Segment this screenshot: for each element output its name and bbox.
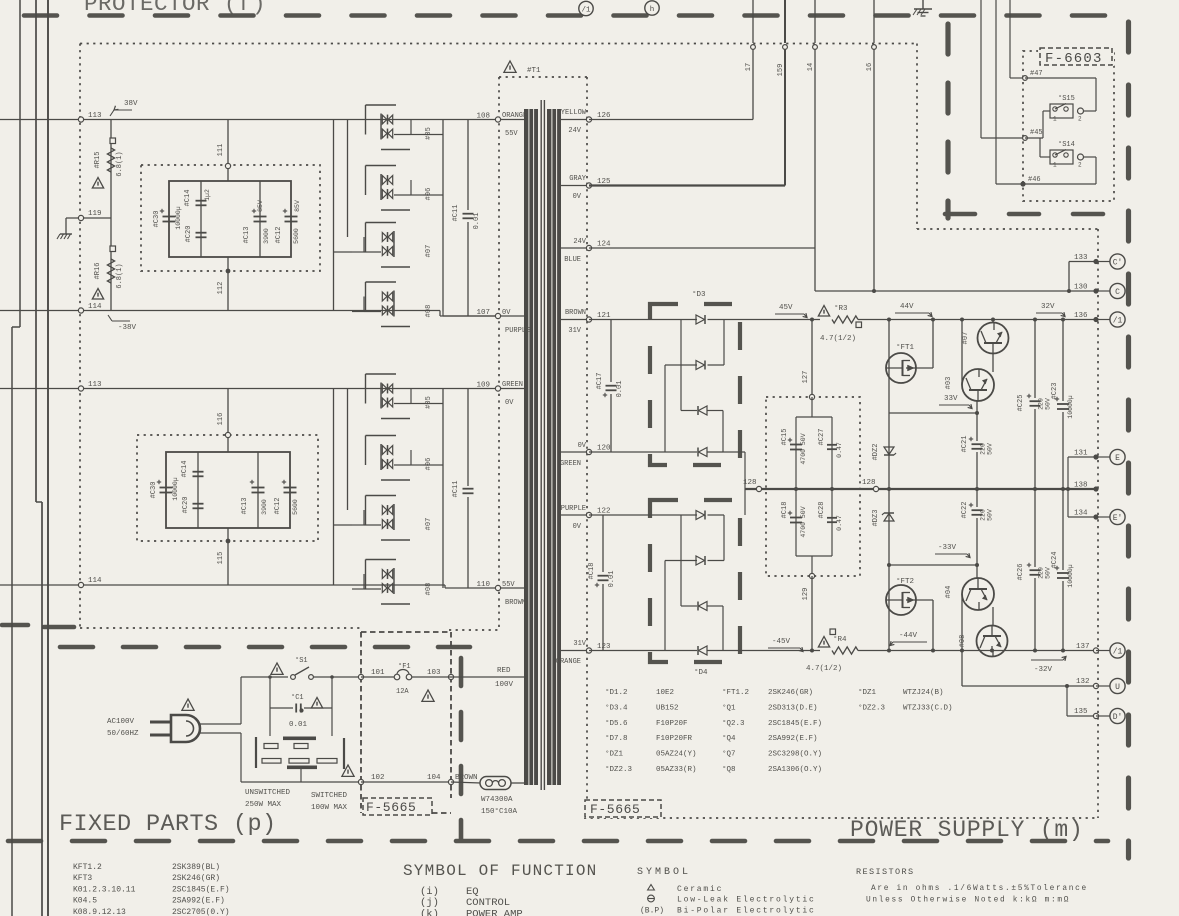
transformer tap 109 [498, 388, 524, 390]
wire line to node 45 [980, 0, 982, 138]
wire node 16 vertical [873, 47, 875, 291]
filter box wiring [811, 397, 813, 417]
wire Q4 emitter to -33V [976, 565, 978, 578]
svg-text:#C13: #C13 [241, 498, 249, 515]
wire -45V rail right [858, 650, 1096, 652]
node 128 right [873, 486, 878, 491]
svg-text:104: 104 [427, 774, 441, 782]
svg-text:F10P20F: F10P20F [656, 720, 688, 728]
svg-text:2SC1845(E.F): 2SC1845(E.F) [768, 720, 822, 728]
wire node 133 horizontal [1069, 261, 1096, 263]
svg-text:55V: 55V [505, 130, 518, 138]
dotted outline power supply box [916, 44, 918, 230]
wire node 47 to S15 [1025, 77, 1096, 79]
node 119 [78, 215, 83, 220]
svg-text:SYMBOL: SYMBOL [637, 867, 691, 878]
wire line to node 47 [1009, 0, 1011, 78]
svg-text:YELLOW: YELLOW [561, 109, 587, 117]
switch S15 [1050, 104, 1073, 118]
svg-text:115: 115 [217, 552, 225, 565]
svg-text:Unless Otherwise Noted k:kΩ m: Unless Otherwise Noted k:kΩ m:mΩ [866, 897, 1070, 905]
svg-text:h: h [650, 6, 655, 14]
wire plug to switch/outlets [200, 723, 241, 725]
wire diode bus vertical A (lower) [333, 389, 335, 586]
svg-text:110: 110 [476, 581, 490, 589]
svg-text:0.01: 0.01 [608, 571, 616, 588]
svg-text:°F1: °F1 [398, 662, 411, 671]
bridge D4 diode 1 [696, 511, 705, 520]
wire node 116 vertical [227, 389, 229, 453]
svg-text:129: 129 [802, 588, 810, 601]
svg-text:°Q7: °Q7 [722, 750, 736, 759]
svg-text:136: 136 [1074, 312, 1088, 320]
transformer tap 122 [560, 514, 589, 516]
svg-text:POWER AMP: POWER AMP [466, 909, 523, 916]
svg-text:111: 111 [217, 144, 225, 157]
transformer tap 108 [498, 119, 524, 121]
svg-text:GREEN: GREEN [560, 460, 581, 468]
svg-text:2SD313(D.E): 2SD313(D.E) [768, 704, 818, 712]
board boundary dash top-right vertical [945, 24, 950, 218]
svg-text:PURPLE: PURPLE [505, 327, 530, 335]
svg-text:°R3: °R3 [834, 304, 848, 313]
node 47 [1023, 76, 1028, 81]
node 127 [809, 394, 814, 399]
wire node 115 vertical [227, 528, 229, 585]
wire line to node 46 [995, 0, 997, 184]
warning triangle (fuse) [422, 690, 434, 701]
svg-text:BROWN: BROWN [565, 309, 586, 317]
resistor R3 [832, 316, 858, 323]
AC plug prongs [150, 721, 171, 724]
connector /1 (137) [1110, 643, 1125, 658]
svg-text:/1: /1 [1113, 647, 1123, 656]
svg-text:220: 220 [1038, 398, 1045, 410]
svg-text:°C1: °C1 [291, 693, 304, 702]
svg-text:°D4: °D4 [694, 668, 708, 677]
svg-text:250W MAX: 250W MAX [245, 801, 282, 809]
svg-text:107: 107 [476, 309, 490, 317]
bracket below #D8 [381, 326, 410, 328]
wire to connector 130 [1096, 290, 1110, 292]
node 131 [1093, 454, 1098, 459]
svg-text:124: 124 [597, 241, 611, 249]
svg-text:0V: 0V [505, 399, 514, 407]
svg-text:138: 138 [1074, 482, 1088, 490]
svg-text:2SA1306(O.Y): 2SA1306(O.Y) [768, 766, 822, 774]
warning triangle (R4) [818, 637, 829, 648]
capacitor C21 [976, 413, 978, 441]
bridge D4 diode 3 [699, 602, 708, 611]
node 45 [1023, 136, 1028, 141]
wire diode bus vertical B (lower) [347, 389, 349, 511]
svg-text:#C13: #C13 [243, 227, 251, 244]
svg-text:#C24: #C24 [1051, 552, 1059, 569]
svg-text:10000µ: 10000µ [1067, 395, 1074, 419]
svg-text:PURPLE: PURPLE [561, 505, 586, 513]
thermal fuse W74300A [480, 777, 511, 790]
capacitor C20b [193, 503, 204, 505]
svg-text:24V: 24V [573, 238, 586, 246]
symbol legend ceramic [648, 885, 655, 891]
test point square (R3) [856, 322, 862, 328]
symbol legend low-leak [648, 895, 655, 902]
svg-text:#C20: #C20 [185, 226, 193, 243]
wire thermal fuse to transformer (BROWN) [511, 782, 524, 784]
svg-text:E: E [1115, 454, 1120, 463]
svg-text:24V: 24V [568, 127, 581, 135]
svg-text:50V: 50V [987, 443, 994, 455]
svg-text:#DZ3: #DZ3 [872, 510, 880, 527]
svg-text:K04.5: K04.5 [73, 897, 97, 906]
label F-5665 (power supply box) [584, 799, 662, 818]
capacitor C22 [976, 489, 978, 507]
capacitor C12b [284, 487, 297, 489]
svg-text:2SA992(E.F): 2SA992(E.F) [172, 897, 225, 906]
board boundary dash around diode bridge D4 [650, 500, 740, 662]
svg-text:132: 132 [1076, 678, 1090, 686]
wire to connector 137 [1096, 650, 1110, 652]
wire to connector 133 [1096, 261, 1110, 263]
node 104 [448, 779, 453, 784]
wire E connector 131 [1067, 457, 1069, 489]
svg-text:119: 119 [88, 210, 102, 218]
dotted outline capacitor box lower [137, 435, 318, 541]
wire Q3 to 33V line [976, 401, 978, 413]
switch S14 [1050, 150, 1073, 164]
svg-text:126: 126 [597, 112, 611, 120]
node 17 [751, 45, 756, 50]
svg-text:102: 102 [371, 774, 385, 782]
svg-text:4.7(1/2): 4.7(1/2) [820, 335, 856, 343]
svg-text:#C11: #C11 [452, 205, 460, 222]
svg-text:#05: #05 [425, 127, 433, 140]
svg-text:0V: 0V [502, 309, 511, 317]
svg-text:114: 114 [88, 303, 102, 311]
node 128 left [756, 486, 761, 491]
svg-text:2SK246(GR): 2SK246(GR) [768, 689, 813, 697]
wire tap 125 to node 159 (0V bus) [589, 184, 785, 186]
board boundary dash right vertical [1126, 22, 1131, 858]
transistor Q8 [977, 626, 1008, 657]
svg-text:°DZ1: °DZ1 [605, 750, 624, 759]
svg-text:°DZ2.3: °DZ2.3 [858, 703, 886, 712]
svg-text:F-6603: F-6603 [1045, 51, 1103, 67]
connector circle top 2 [645, 1, 659, 15]
bracket below #D7 [381, 266, 410, 268]
wire node 120 horizontal [589, 451, 697, 453]
svg-text:0.01: 0.01 [616, 381, 624, 398]
bracket above #D8 [366, 281, 397, 283]
wire node 114b horizontal [0, 584, 445, 586]
bracket below #D8 [381, 603, 410, 605]
dotted outline protector/power top edge [80, 43, 917, 45]
svg-text:°Q4: °Q4 [722, 734, 736, 743]
svg-text:-38V: -38V [118, 324, 137, 332]
svg-text:W74300A: W74300A [481, 796, 513, 804]
svg-text:#C30: #C30 [150, 482, 158, 499]
svg-text:E': E' [1113, 514, 1123, 523]
svg-text:°S14: °S14 [1058, 140, 1075, 149]
node 112 junction [226, 269, 231, 274]
svg-text:116: 116 [217, 413, 225, 426]
rectifier diode #D5 [382, 384, 387, 393]
svg-text:108: 108 [476, 113, 490, 121]
svg-text:/1: /1 [1113, 316, 1123, 325]
svg-text:#05: #05 [425, 396, 433, 409]
rectifier diode #D7 [382, 233, 387, 242]
svg-text:50V: 50V [987, 509, 994, 521]
node 129 [809, 573, 814, 578]
AC outlets [269, 708, 271, 736]
svg-text:-44V: -44V [899, 632, 918, 640]
svg-text:#47: #47 [1030, 70, 1043, 78]
wire node 130 horizontal [815, 290, 1096, 292]
warning triangle (R15) [92, 178, 103, 189]
svg-text:85V: 85V [294, 200, 301, 212]
svg-text:ORANGE: ORANGE [502, 112, 527, 120]
zener DZ2 [888, 413, 890, 489]
capacitor C18 [790, 517, 802, 519]
node 137 [1093, 648, 1098, 653]
bridge D3 diode 4 [699, 448, 708, 457]
svg-text:#C14: #C14 [184, 190, 192, 207]
warning triangle (T1) [504, 61, 516, 72]
wire capacitor branch C14b/C20b [197, 452, 199, 528]
svg-text:(j): (j) [420, 897, 439, 909]
svg-text:K08.9.12.13: K08.9.12.13 [73, 908, 126, 916]
wire node 129 vertical [811, 576, 813, 651]
wire node 113b horizontal [0, 388, 498, 390]
capacitor C17 [606, 385, 617, 387]
fuse F1 [394, 674, 400, 680]
svg-text:C': C' [1113, 258, 1123, 267]
bracket below #D6 [381, 209, 410, 211]
svg-text:220: 220 [980, 443, 987, 455]
transistor Q7 [978, 323, 1009, 354]
wire capacitor branch C13 [259, 181, 261, 257]
transistor Q4 [962, 578, 994, 610]
svg-text:-32V: -32V [1034, 666, 1053, 674]
svg-text:°DZ1: °DZ1 [858, 688, 877, 697]
svg-text:0V: 0V [573, 523, 582, 531]
svg-text:(B.P): (B.P) [640, 907, 664, 916]
svg-text:#R16: #R16 [94, 263, 102, 280]
svg-text:12A: 12A [396, 688, 409, 696]
svg-text:2: 2 [1078, 162, 1082, 169]
test point square (below R16) [110, 246, 116, 252]
svg-text:113: 113 [88, 381, 102, 389]
bridge D4 diode 2 [696, 556, 705, 565]
warning triangle (C1) [311, 698, 322, 709]
svg-text:#07: #07 [962, 332, 970, 345]
svg-text:RESISTORS: RESISTORS [856, 867, 915, 877]
wire diode output bus (upper) [442, 120, 444, 312]
transformer T1 secondary winding bars [547, 109, 561, 785]
test point square (R4) [830, 629, 836, 635]
svg-text:°FT1.2: °FT1.2 [722, 688, 749, 697]
wire node 123 horizontal [589, 650, 697, 652]
svg-text:159: 159 [777, 64, 785, 77]
node 101 [358, 674, 363, 679]
wire node 128 bus [745, 488, 1096, 490]
svg-text:#DZ2: #DZ2 [872, 444, 880, 461]
wire 104 to thermal fuse [451, 782, 481, 783]
rectifier diode #D5 [382, 115, 387, 124]
connector circle top 1 [579, 1, 593, 15]
node 130 terminal [1093, 288, 1098, 293]
svg-text:134: 134 [1074, 510, 1088, 518]
warning triangle (R3) [818, 306, 829, 317]
svg-text:#C12: #C12 [275, 227, 283, 244]
bracket below #D5 [381, 149, 410, 151]
svg-text:°S1: °S1 [295, 656, 308, 665]
svg-text:16: 16 [866, 63, 874, 71]
warning triangle (plug) [182, 699, 194, 710]
node 113b [78, 386, 83, 391]
transistor Q3 [962, 369, 994, 401]
svg-text:#03: #03 [945, 377, 953, 390]
wire FT2 gate feed [888, 565, 890, 651]
svg-text:#46: #46 [1028, 176, 1041, 184]
svg-text:#C27: #C27 [818, 429, 826, 446]
svg-text:114: 114 [88, 577, 102, 585]
svg-text:1µ2: 1µ2 [204, 189, 211, 201]
svg-text:#06: #06 [425, 458, 433, 471]
svg-text:°S15: °S15 [1058, 94, 1075, 103]
wire node 45 to switches [1025, 137, 1043, 139]
svg-text:#C26: #C26 [1017, 564, 1025, 581]
svg-text:F10P20FR: F10P20FR [656, 735, 693, 743]
rectifier diode #D8 [382, 292, 387, 301]
svg-text:1: 1 [1053, 162, 1057, 169]
svg-text:°Q1: °Q1 [722, 703, 736, 712]
bracket above #D5 [366, 373, 397, 375]
svg-text:122: 122 [597, 508, 611, 516]
wire node 114 (-38V) horizontal [0, 310, 440, 312]
svg-text:#07: #07 [425, 518, 433, 531]
svg-text:°D3.4: °D3.4 [605, 703, 628, 712]
bracket above #D8 [366, 559, 397, 561]
label F-6603 [1038, 47, 1114, 66]
node 102 [358, 779, 363, 784]
capacitor C17 branch [610, 320, 612, 383]
bracket below #D7 [381, 539, 410, 541]
svg-text:GRAY: GRAY [569, 175, 587, 183]
svg-text:31V: 31V [568, 327, 581, 335]
capacitor C24 [1062, 489, 1064, 570]
wire Q bases feed [961, 320, 963, 386]
svg-text:#C28: #C28 [818, 502, 826, 519]
svg-text:0V: 0V [573, 193, 582, 201]
rectifier diode #D7 [382, 506, 387, 515]
svg-text:#07: #07 [425, 245, 433, 258]
wire 45V rail [708, 319, 821, 321]
node 138 [1093, 486, 1098, 491]
svg-text:WTZJ24(B): WTZJ24(B) [903, 689, 944, 697]
svg-text:128: 128 [743, 479, 757, 487]
wire node 46 to S14 [1023, 183, 1096, 185]
dotted outline left box left edge [79, 44, 81, 629]
svg-text:#08: #08 [959, 635, 967, 648]
svg-text:101: 101 [371, 669, 385, 677]
svg-text:05AZ33(R): 05AZ33(R) [656, 766, 697, 774]
wire -33V line [889, 564, 977, 566]
capacitor C27 [827, 444, 837, 446]
bracket below #D6 [381, 479, 410, 481]
svg-text:KFT3: KFT3 [73, 874, 92, 883]
capacitor bank frame (upper) [169, 181, 291, 257]
svg-text:#C20: #C20 [182, 497, 190, 514]
svg-text:0V: 0V [578, 442, 587, 450]
dotted outline left box bottom edge [80, 627, 361, 629]
svg-text:#08: #08 [425, 583, 433, 596]
board boundary dash mid vertical [459, 658, 464, 840]
svg-text:2: 2 [1078, 116, 1082, 123]
svg-text:#08: #08 [425, 305, 433, 318]
label F-5665 (AC box) [363, 798, 432, 815]
svg-text:10000µ: 10000µ [172, 477, 179, 501]
wire diode bus vertical B (upper) [347, 120, 349, 238]
FET FT1 [886, 353, 916, 383]
svg-text:#C30: #C30 [153, 211, 161, 228]
svg-text:0.47: 0.47 [836, 442, 843, 458]
svg-text:-33V: -33V [938, 544, 957, 552]
wire tap 126 to node 17 [589, 119, 753, 121]
svg-text:85V: 85V [257, 200, 264, 212]
rectifier diode #D8 [382, 570, 387, 579]
wire node 127 vertical [811, 320, 813, 398]
wire S1 to node 101 [313, 676, 361, 678]
svg-text:°DZ2.3: °DZ2.3 [605, 765, 633, 774]
svg-text:45V: 45V [779, 304, 793, 312]
svg-text:WTZJ33(C.D): WTZJ33(C.D) [903, 704, 953, 712]
bridge D3 wiring [680, 320, 682, 411]
svg-text:°D3: °D3 [692, 290, 706, 299]
transformer tap 123 [560, 650, 589, 652]
svg-text:Bi-Polar Electrolytic: Bi-Polar Electrolytic [677, 907, 816, 916]
wire bridge D3 to 128 [723, 451, 745, 453]
connector C' (133) [1110, 254, 1125, 269]
svg-text:220: 220 [980, 509, 987, 521]
transformer tap 120 [560, 451, 589, 453]
svg-text:3900: 3900 [263, 228, 270, 244]
svg-text:#C22: #C22 [961, 502, 969, 519]
svg-text:133: 133 [1074, 254, 1088, 262]
svg-text:U: U [1115, 683, 1120, 692]
wire page-left vertical 3 [47, 0, 49, 916]
svg-text:1: 1 [1053, 116, 1057, 123]
svg-text:32V: 32V [1041, 303, 1055, 311]
rectifier diode #D6 [382, 176, 387, 185]
svg-text:°Q2.3: °Q2.3 [722, 719, 745, 728]
wire to connector 136 [1096, 319, 1110, 321]
svg-text:Are in ohms .1/6Watts.±5%Tole: Are in ohms .1/6Watts.±5%Tolerance [871, 885, 1088, 893]
node 132 [1093, 683, 1098, 688]
svg-text:RED: RED [497, 667, 511, 675]
svg-text:220: 220 [1038, 567, 1045, 579]
node 133 terminal [1093, 259, 1098, 264]
connector D' (135) [1110, 708, 1125, 723]
connector C (130) [1110, 283, 1125, 298]
wire fuse to transformer (RED) [412, 676, 451, 678]
wire capacitor branch C13b [257, 452, 259, 528]
bracket above #D7 [366, 222, 397, 224]
node 16 [872, 45, 877, 50]
wire page-left vertical 2 [35, 0, 37, 502]
svg-text:5600: 5600 [292, 499, 299, 515]
svg-text:#C18: #C18 [781, 502, 789, 519]
